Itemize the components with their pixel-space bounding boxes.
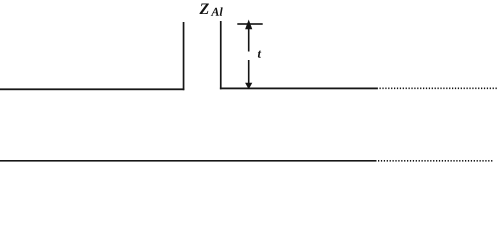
dimension arrow t : lower shaft segment <box>248 60 250 84</box>
dimension arrow t : top reference bar <box>237 23 262 25</box>
dimension arrow t : upper arrowhead <box>245 20 252 30</box>
wire right top conductor dotted continuation <box>380 87 498 89</box>
dimension arrow t : upper shaft segment <box>248 28 250 52</box>
wire gap right vertical edge <box>220 21 222 89</box>
dimension arrow t : lower arrowhead <box>245 83 252 90</box>
dimension arrow t : value label t <box>258 51 261 58</box>
wire right top conductor solid <box>220 88 378 90</box>
wire bottom ground plane solid <box>0 160 377 162</box>
wire gap left vertical edge <box>183 22 185 90</box>
wire left top conductor <box>0 88 184 90</box>
label Z_Al (impedance of the line) <box>199 4 222 16</box>
wire bottom ground plane dotted continuation <box>378 160 494 162</box>
